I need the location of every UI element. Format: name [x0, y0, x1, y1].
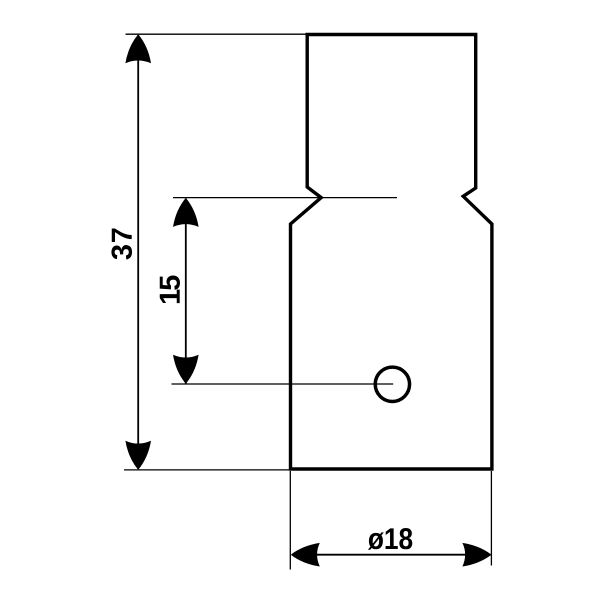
- dimension line o18: [292, 554, 491, 556]
- part outline: [291, 35, 492, 470]
- center hole circle: [375, 367, 409, 401]
- arrow 15 bottom: [173, 355, 199, 384]
- label 37: [111, 228, 132, 259]
- extension line bottom (37): [124, 469, 290, 471]
- leader line to circle center (bottom extension of 15): [172, 383, 394, 385]
- label 15: [160, 275, 180, 303]
- dimension line 37: [137, 35, 139, 469]
- arrow 37 bottom: [125, 441, 151, 470]
- extension line left (o18): [289, 471, 291, 570]
- arrow o18 right: [462, 543, 491, 567]
- extension line top (15): [173, 197, 397, 199]
- extension line top (37): [126, 33, 308, 35]
- arrow 15 top: [173, 198, 199, 227]
- extension line right (o18): [490, 471, 492, 566]
- arrow 37 top: [125, 34, 151, 63]
- dimension line 15: [185, 199, 187, 384]
- arrow o18 left: [291, 543, 320, 567]
- label o18: [368, 528, 412, 550]
